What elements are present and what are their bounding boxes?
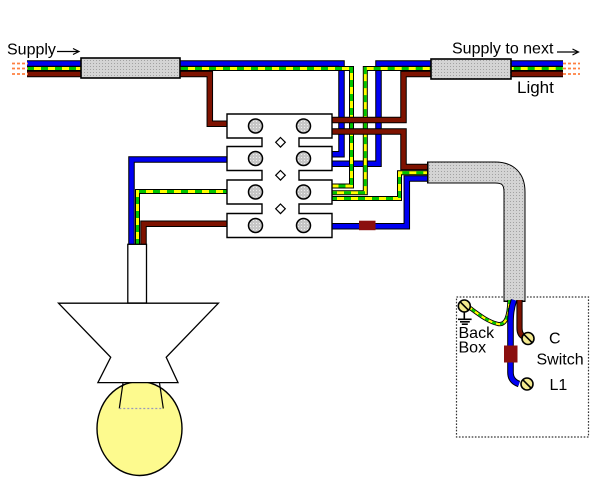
junction box: ceiling rose terminal block body bbox=[227, 114, 332, 238]
svg-text:L1: L1 bbox=[550, 377, 568, 394]
screw: switch L1 screw bbox=[521, 378, 533, 390]
screw: switch common C screw bbox=[522, 333, 534, 345]
lamp holder body bbox=[59, 303, 219, 382]
cable sheath: supply-to-next cable grey sheath bbox=[431, 59, 511, 79]
svg-text:Switch: Switch bbox=[537, 352, 584, 369]
divider diamond between row2 and row3 bbox=[276, 171, 286, 181]
wire: brown live inside switch box to C bbox=[520, 300, 524, 337]
wire: earth terminal row 3 to lamp bbox=[138, 192, 231, 245]
wire: brown live loop out terminal row 1 to supply-to-next bbox=[330, 74, 563, 120]
switch back box outline bbox=[457, 297, 589, 437]
arrow after Supply label bbox=[57, 49, 79, 55]
lamp pendant tube bbox=[128, 244, 147, 303]
sleeve: brown sleeve on switched live return bbox=[359, 221, 376, 231]
wire: brown switch feed terminal row 1 to conduit bbox=[330, 132, 429, 168]
cable sheath: supply cable grey sheath bbox=[81, 58, 180, 78]
wire: earth to switch drop terminal row 3 to conduit bbox=[330, 173, 429, 199]
divider diamond between row1 and row2 bbox=[276, 138, 286, 148]
terminal E row3 left screw bbox=[249, 185, 263, 199]
terminal E row3 right screw bbox=[297, 185, 311, 199]
wire: supply earth from left into terminal row 3 right side bbox=[27, 69, 352, 187]
lamp bulb bbox=[97, 382, 182, 476]
svg-text:Box: Box bbox=[459, 340, 487, 357]
arrow after Supply to next label bbox=[557, 49, 579, 55]
terminal N row2 right screw bbox=[297, 152, 311, 166]
wire: brown live terminal row 4 to lamp bbox=[144, 224, 231, 244]
svg-text:Light: Light bbox=[517, 78, 554, 97]
wire: blue neutral loop out terminal row 2 to supply-to-next bbox=[330, 64, 563, 164]
wire: earth loop out terminal row 3 to supply-to-next bbox=[330, 69, 563, 193]
screw: back box earth screw bbox=[458, 300, 470, 312]
cable end: supply-to-next right frayed orange conductors bbox=[563, 64, 580, 75]
wire: supply brown live from left into terminal row 1 left side bbox=[27, 74, 230, 124]
terminal SL row4 left screw bbox=[249, 219, 263, 233]
terminal SL row4 right screw bbox=[297, 219, 311, 233]
terminal L1 row1 left screw bbox=[249, 119, 263, 133]
svg-text:Supply to next: Supply to next bbox=[452, 41, 554, 58]
sleeve: brown sleeve on blue wire in switch box bbox=[504, 346, 518, 363]
ground symbol under back box screw bbox=[458, 312, 472, 324]
conduit: grey conduit from rose area down to switch bbox=[427, 173, 515, 303]
wire: blue switched live inside switch box to L1 bbox=[511, 300, 520, 384]
wire: earth inside switch box to back box screw bbox=[468, 300, 510, 324]
lamp bulb neck lines bbox=[119, 383, 163, 409]
wire: blue switched live return conduit to terminal row 4 bbox=[330, 179, 429, 227]
svg-text:C: C bbox=[549, 331, 561, 348]
terminal L1 row1 right screw bbox=[297, 119, 311, 133]
svg-text:Supply: Supply bbox=[7, 42, 56, 59]
wire: blue neutral terminal row 2 to lamp bbox=[132, 160, 231, 245]
wire: supply blue neutral from left into terminal row 2 right side bbox=[27, 64, 342, 155]
terminal N row2 left screw bbox=[249, 152, 263, 166]
divider diamond between row3 and row4 bbox=[276, 204, 286, 214]
cable end: supply left frayed orange conductors bbox=[12, 64, 28, 75]
